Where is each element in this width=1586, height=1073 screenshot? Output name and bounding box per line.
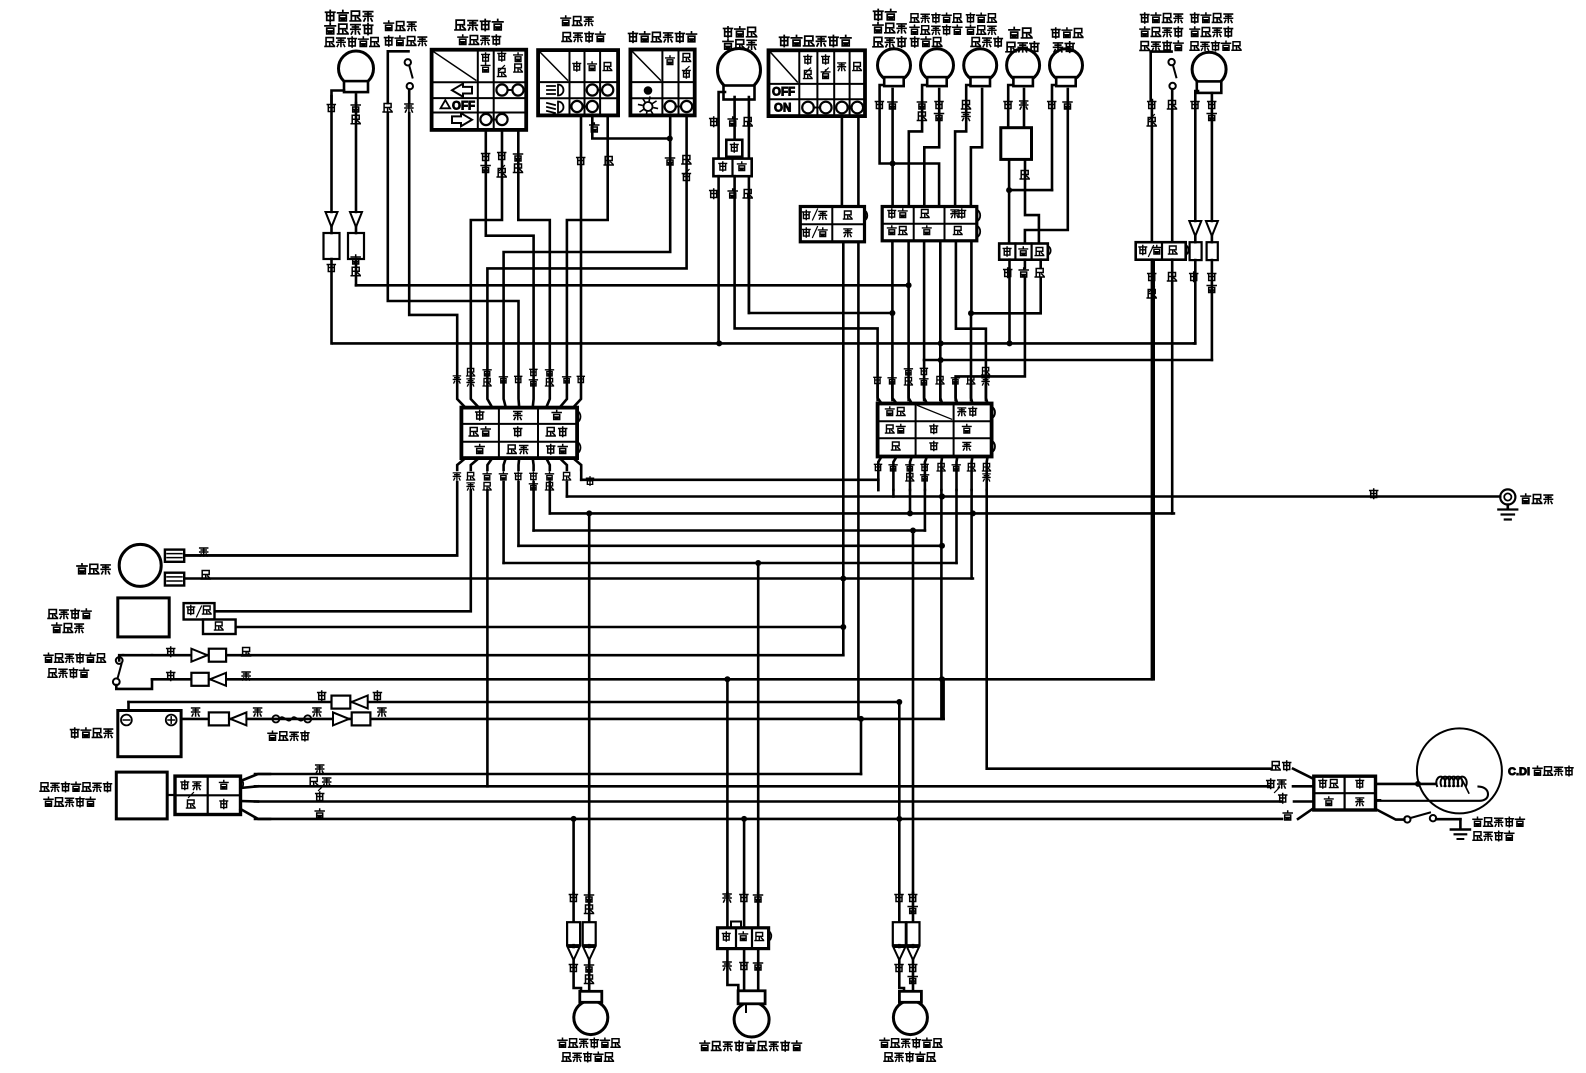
label: tail stop lamp bbox=[700, 1041, 801, 1051]
wire: ffr darkgreen bbox=[1207, 93, 1216, 221]
wire: lb yellow/red bbox=[486, 490, 489, 786]
wire: left lamp black down bbox=[327, 96, 335, 212]
label: rfl below bbox=[569, 963, 593, 984]
bus: darkbrown y513 bbox=[550, 510, 1174, 516]
label: dimmer header bbox=[573, 62, 612, 71]
wire: conn brown down bbox=[970, 241, 973, 400]
wire: lb blue bbox=[502, 482, 505, 563]
label: headlight colors bbox=[710, 117, 753, 127]
connector: rfr bullets bbox=[893, 922, 920, 960]
label: horn sw pink bbox=[405, 104, 413, 112]
wire: rect yel/red line bbox=[255, 778, 1270, 791]
wire: right block top funnel bbox=[878, 385, 988, 404]
connector: front stop 2pin bbox=[1136, 242, 1189, 260]
wire: lb yellow bbox=[566, 482, 569, 497]
wire: horn brown stub bbox=[201, 571, 210, 580]
wire: lb black bbox=[517, 482, 520, 546]
wire: drop to rear flasher R darkgreen bbox=[912, 531, 915, 894]
wire: lb darkgreen bbox=[532, 482, 535, 531]
wire: drop rear-R black bbox=[896, 702, 902, 893]
label: battery bbox=[71, 728, 113, 738]
label: neutral switch bbox=[1473, 817, 1524, 841]
wire: rb green bbox=[877, 480, 880, 490]
svg-text:OFF: OFF bbox=[772, 87, 795, 99]
label: black below bbox=[327, 263, 335, 273]
wire: 3pin blue down bbox=[956, 260, 1025, 400]
label: ffr below bbox=[1190, 272, 1217, 293]
wire: 3pin black down bbox=[1007, 260, 1013, 347]
label: main conn cells bbox=[802, 209, 852, 238]
component: rectifier bbox=[116, 772, 175, 819]
label: rectifier bbox=[40, 782, 112, 807]
wire: lb brown/white bbox=[215, 490, 471, 611]
component: horn bbox=[119, 544, 161, 586]
label: rect conn cells bbox=[181, 781, 228, 809]
wire: main brown below bbox=[840, 242, 846, 655]
wire: rb darkbrown t bbox=[907, 490, 913, 516]
wire: drop to rear flasher L darkbrown bbox=[588, 513, 591, 893]
component: battery bbox=[118, 711, 181, 757]
label: lamp 2x3 cells bbox=[888, 209, 966, 235]
wire: rfr black bbox=[895, 893, 903, 920]
connector: relay brn/wht box bbox=[184, 603, 215, 619]
wire: black into conn bbox=[1298, 808, 1314, 819]
wire: yel/red into conn bbox=[1293, 785, 1314, 788]
component: CDI coil bbox=[1376, 777, 1489, 801]
label: high beam bbox=[873, 10, 906, 48]
lamp: flasher pilot lamp bbox=[921, 49, 954, 86]
label: right block top pins bbox=[874, 367, 990, 385]
label: rfr below bbox=[895, 963, 917, 984]
lamp: speed warning lamp bbox=[1007, 49, 1040, 86]
wire: white into conn bbox=[1294, 800, 1314, 803]
switch: rear stop switch bbox=[113, 655, 152, 689]
bus: green y480 bbox=[581, 478, 878, 481]
wire: battery red chain bbox=[192, 708, 386, 741]
wire: front stop grn/yel down bbox=[1151, 260, 1154, 680]
wire: right block bottom funnel bbox=[878, 457, 987, 491]
bus: darkgreen y530 bbox=[534, 528, 925, 534]
wire: drop to tail blue bbox=[757, 563, 760, 893]
wire: high beam blue bbox=[888, 89, 897, 207]
connector: left 3x3 block bbox=[461, 408, 580, 459]
wire: flasher DG bbox=[481, 130, 533, 343]
contacts: main ON row bbox=[802, 102, 863, 114]
wire: rfl into lamp bbox=[574, 960, 590, 992]
lamp: neutral lamp bbox=[964, 49, 997, 86]
wire: speed-warn orange bbox=[1020, 89, 1028, 128]
wire: rfl black bbox=[569, 893, 577, 922]
wire: conn skyblue jog bbox=[956, 241, 986, 400]
label: left block cells bbox=[469, 411, 567, 455]
label: rear flasher left bbox=[558, 1038, 620, 1062]
symbol: dimmer low-beam bbox=[547, 102, 564, 114]
connector: lamp 2x3 bbox=[882, 207, 980, 241]
label: 3pin below bbox=[1004, 268, 1044, 278]
connector: relay brown box bbox=[203, 620, 236, 635]
symbol: light on-sun bbox=[639, 97, 658, 116]
wire: main brown down bbox=[841, 116, 844, 206]
connector: horn terminal 2 bbox=[165, 573, 184, 586]
label: main ON bbox=[774, 103, 791, 115]
bus: black y546 bbox=[519, 544, 943, 547]
wire: rect red line bbox=[255, 765, 861, 774]
wire: lb darkbrown bbox=[548, 482, 551, 513]
wire: ffr darkgreen down bbox=[1211, 260, 1214, 360]
label: tail below bbox=[723, 961, 762, 971]
contacts: flasher row2 bbox=[496, 84, 523, 95]
symbol: flasher right-arrow bbox=[452, 113, 472, 126]
symbol: flasher left-arrow bbox=[452, 84, 472, 97]
connector: headlight single green bbox=[726, 140, 742, 157]
wire: ffr black bbox=[1191, 91, 1199, 221]
wire: headlight green jog bbox=[735, 176, 878, 400]
lamp: front flasher lamp (left) bbox=[332, 51, 374, 104]
label: darkbrown below bbox=[351, 255, 360, 276]
table: main switch bbox=[769, 50, 866, 116]
wire: pilot darkgreen bbox=[924, 89, 943, 207]
label: flasher pilot bbox=[910, 13, 962, 47]
wire: lb green bbox=[580, 470, 583, 480]
label: speed warning bbox=[1006, 28, 1039, 53]
label: neutral bbox=[966, 13, 1002, 47]
component: CDI magneto circle bbox=[1417, 728, 1502, 813]
wire: rb yellow bbox=[892, 490, 895, 497]
label: light header bbox=[666, 53, 691, 78]
connector: horn terminal 1 bbox=[165, 550, 184, 562]
label: flasher header bbox=[481, 52, 522, 77]
lamp: rear flasher left bbox=[574, 991, 608, 1034]
wire: tail into lamp bbox=[727, 949, 758, 991]
wire: headlight blue jog bbox=[749, 199, 896, 316]
lamp: tail stop lamp bbox=[734, 991, 769, 1037]
bus: darkgreen bus y360 bbox=[924, 359, 1212, 362]
wire: rfl darkbrown bbox=[585, 893, 594, 922]
wire: lb pink bbox=[184, 482, 457, 555]
svg-text:OFF: OFF bbox=[452, 101, 475, 113]
switch: horn switch bbox=[388, 51, 413, 103]
wire: headlight black to bus bbox=[716, 176, 722, 346]
wire: rect black line bbox=[255, 809, 1282, 819]
lamp: high beam lamp bbox=[878, 49, 911, 86]
connector: meter 3pin bbox=[999, 244, 1050, 260]
wire: conn blue/yellow down bbox=[891, 241, 894, 400]
wire: pilot darkbrown bbox=[909, 85, 927, 207]
bus: black bus y343 bbox=[333, 342, 1194, 345]
wire: drop to tail yellow bbox=[726, 679, 729, 893]
wire: front stop brown down bbox=[1171, 260, 1174, 514]
wire: left lamp black to bus bbox=[330, 259, 333, 343]
label: main OFF bbox=[772, 87, 795, 99]
bus: blue y563 bbox=[504, 560, 957, 566]
label: right block bottom pins bbox=[874, 463, 990, 481]
contacts: flasher row4 bbox=[480, 114, 507, 125]
wire: left block top funnel bbox=[457, 343, 581, 408]
wire: skyblue into conn bbox=[1293, 769, 1314, 779]
bus: yellow/ground y496 bbox=[567, 489, 1500, 500]
symbol: dimmer high-beam bbox=[547, 85, 563, 96]
symbol: light off-dot bbox=[644, 87, 652, 95]
connector: bullet pair left lamp darkbrown bbox=[348, 212, 364, 259]
wire: black joined down bbox=[1008, 190, 1011, 243]
connector: main-switch 2x2 bbox=[800, 207, 867, 242]
wire: rect white line bbox=[255, 792, 1281, 802]
label: front flasher right bbox=[1190, 13, 1241, 51]
connector: right 3x3 block bbox=[878, 404, 995, 457]
wire: neutral right bbox=[971, 89, 982, 207]
wire: conn black down bbox=[938, 241, 944, 400]
label: CDI magneto bbox=[1508, 766, 1573, 778]
label: rear flasher right bbox=[880, 1038, 942, 1062]
connector: bullet pair left lamp black bbox=[324, 212, 340, 259]
wire: rfr into lamp bbox=[899, 960, 913, 992]
wire: tail black bbox=[740, 893, 748, 928]
wire: dimmer yellow bbox=[567, 115, 613, 343]
lamp: headlight bbox=[718, 49, 761, 100]
label: flasher relay bbox=[48, 609, 91, 632]
bus: stop-brown y655 bbox=[152, 654, 843, 657]
lamp: front flasher right bbox=[1192, 52, 1226, 93]
connector: CDI 2x2 bbox=[1314, 776, 1376, 810]
switch: neutral switch bbox=[1376, 809, 1461, 828]
connector: tail 3pin bbox=[718, 922, 772, 949]
table: dimmer switch bbox=[538, 50, 618, 115]
wire: high beam black bbox=[875, 85, 939, 207]
label: front stop switch bbox=[1140, 13, 1183, 51]
wire: stop sw bottom bbox=[167, 671, 250, 686]
wire: speed-warn black bbox=[1004, 85, 1012, 128]
wire: flasher BrW bbox=[471, 130, 506, 343]
connector: headlight double bbox=[713, 159, 751, 177]
label: earth bbox=[1521, 494, 1553, 503]
label: left block bottom pins bbox=[453, 472, 593, 490]
wire: rb blue bbox=[955, 490, 958, 563]
wire: conn darkgreen down bbox=[923, 241, 926, 400]
switch: front stop switch bbox=[1151, 52, 1177, 100]
contacts: dimmer row2 bbox=[587, 84, 614, 95]
wire: conn to coil row2 bbox=[1376, 799, 1381, 802]
wire: rect fan bbox=[241, 774, 271, 819]
wire: main red below bbox=[858, 242, 864, 774]
label: front flasher lamp left bbox=[325, 11, 379, 47]
connector: rfl bullets bbox=[567, 922, 596, 960]
bus: brown y578 bbox=[184, 577, 973, 580]
wire: conn darkbrown down bbox=[906, 241, 912, 400]
wire: left lamp darkbrown down bbox=[351, 95, 360, 213]
wire: meter black bbox=[1048, 85, 1056, 190]
wire: main red down bbox=[857, 116, 860, 206]
bus: stop-yellow y679 bbox=[152, 260, 1154, 683]
wire: rb brown bbox=[970, 490, 976, 579]
wire: left lamp darkbrown to busH7 bbox=[355, 259, 358, 285]
wire: headlight stubs bbox=[719, 92, 749, 313]
wire: horn sw pink down bbox=[409, 113, 457, 343]
label: dimmer switch bbox=[561, 16, 605, 42]
label: right block cells bbox=[886, 407, 977, 451]
label: meter illum bbox=[1052, 28, 1083, 52]
wire: left block bottom funnel bbox=[457, 458, 581, 470]
connector: rectifier 2x2 bbox=[175, 776, 243, 814]
lamp: rear flasher right bbox=[893, 991, 927, 1034]
wire: resistor black out bbox=[1006, 159, 1052, 193]
wire: resistor brown out bbox=[1020, 159, 1039, 243]
label: horn switch bbox=[384, 21, 427, 46]
wire: tail blue bbox=[754, 893, 763, 928]
component: flasher relay bbox=[118, 598, 169, 637]
table: light switch bbox=[630, 50, 694, 116]
bus: battery-red y719 bbox=[181, 679, 944, 719]
wire: stop sw top bbox=[167, 647, 251, 662]
contacts: dimmer row3 bbox=[571, 101, 598, 112]
wire: 3pin brown down bbox=[968, 260, 1041, 317]
wire: rb darkgreen bbox=[924, 490, 927, 531]
label: flasher OFF bbox=[441, 100, 476, 113]
box: speed warning resistor bbox=[1001, 128, 1032, 160]
bus: relay-brown y627 bbox=[236, 626, 844, 629]
label: headlight colors below bbox=[710, 189, 753, 199]
wire: horn sw black down bbox=[388, 113, 519, 343]
symbol: neutral sw ground bbox=[1451, 830, 1470, 840]
wire: rb skyblue bbox=[987, 490, 1271, 769]
svg-text:ON: ON bbox=[774, 103, 791, 115]
wire: dimmer green down bbox=[577, 115, 585, 343]
wire: ffr black down bbox=[1194, 260, 1195, 343]
wire: H7 darkbrown bbox=[356, 284, 909, 287]
label: flasher switch bbox=[455, 20, 503, 45]
label: front stop below bbox=[1147, 272, 1176, 298]
table: flasher switch bbox=[432, 50, 527, 130]
wire: neutral skyblue bbox=[955, 85, 970, 207]
lamp: meter illumination lamp bbox=[1050, 49, 1083, 86]
bus: battery-black y702 bbox=[129, 699, 903, 711]
label: CDI conn cells bbox=[1319, 779, 1364, 806]
wire: front stop brown bbox=[1168, 100, 1177, 242]
wire: drop rear-L black bbox=[571, 816, 577, 893]
wire: tail yellow bbox=[723, 893, 731, 928]
label: main header bbox=[804, 55, 862, 79]
wire: battery black chain bbox=[318, 691, 382, 709]
label: headlight bbox=[723, 27, 757, 49]
symbol: earth ground bbox=[1498, 489, 1517, 519]
wire: light blue down bbox=[504, 115, 675, 343]
label: rear stop switch bbox=[44, 653, 106, 678]
wire: meter blue bbox=[1025, 89, 1072, 244]
wire: rfr darkgreen bbox=[908, 893, 917, 920]
connector: ffr bullets bbox=[1189, 221, 1218, 260]
label: CDI line colors bbox=[1267, 761, 1293, 820]
wire: dimmer blue jog bbox=[590, 115, 670, 138]
wire: flasher DBr bbox=[514, 130, 550, 343]
svg-text:C.DI: C.DI bbox=[1508, 766, 1530, 778]
wire: front stop grn/yel bbox=[1147, 100, 1156, 242]
wire: light yel/red down bbox=[487, 115, 691, 343]
label: left block top pins bbox=[453, 368, 584, 386]
label: main switch bbox=[780, 36, 851, 47]
label: light switch bbox=[629, 32, 697, 43]
label: horn sw black bbox=[383, 104, 392, 113]
wire: horn pink stub bbox=[184, 548, 457, 556]
contacts: light row3 bbox=[665, 101, 693, 112]
wire: rb black bbox=[939, 490, 945, 719]
wire: drop tail black bbox=[741, 816, 747, 893]
label: horn bbox=[77, 564, 110, 574]
